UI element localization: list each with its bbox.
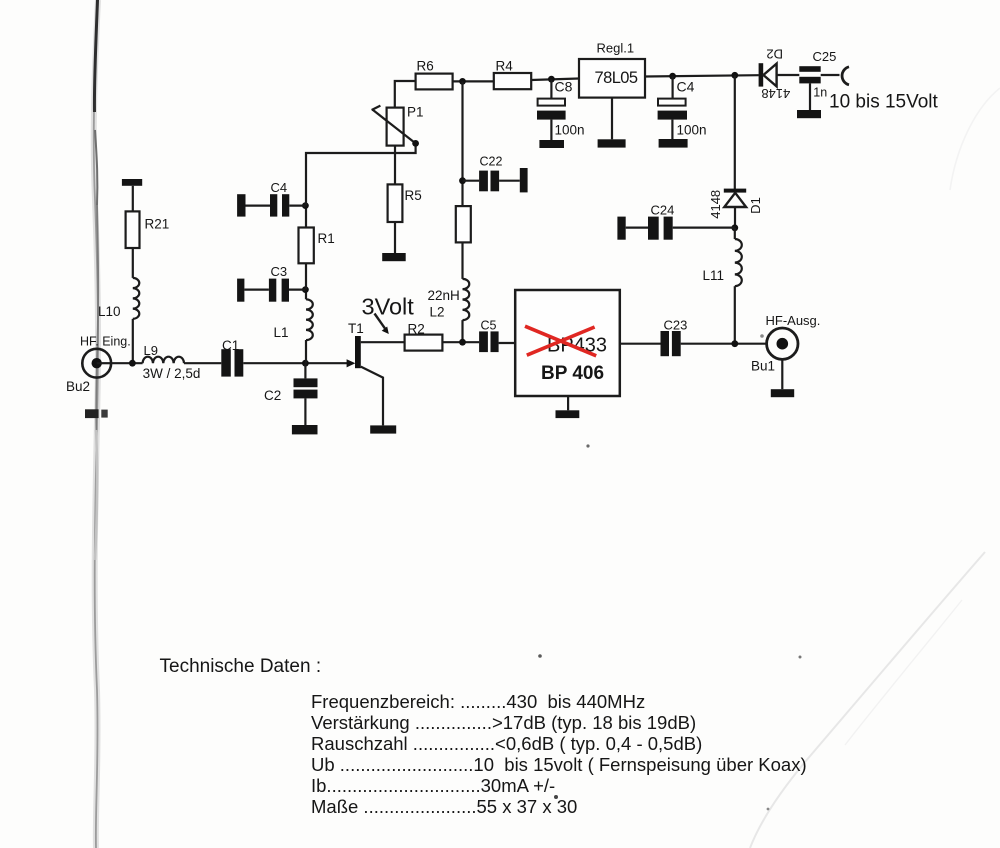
diode D2 bbox=[759, 47, 791, 101]
inductor L10 bbox=[98, 278, 139, 319]
ground (top of R21) bbox=[122, 179, 142, 211]
capacitor C4 bbox=[237, 180, 305, 217]
svg-text:Verstärkung ...............>17: Verstärkung ...............>17dB (typ. 1… bbox=[311, 712, 696, 733]
svg-text:BP 406: BP 406 bbox=[541, 363, 604, 384]
svg-text:Maße ......................55: Maße ......................55 x 37 x 30 bbox=[311, 796, 577, 817]
svg-text:R4: R4 bbox=[496, 59, 514, 74]
node (C3 junction) bbox=[302, 286, 309, 293]
ground (C4 100n) bbox=[659, 139, 688, 148]
diode D1 bbox=[708, 189, 763, 228]
svg-text:R2: R2 bbox=[408, 322, 425, 337]
svg-text:Regl.1: Regl.1 bbox=[597, 41, 635, 56]
node (C4 100n junction) bbox=[669, 73, 676, 80]
svg-text:D1: D1 bbox=[748, 197, 763, 214]
svg-text:Bu2: Bu2 bbox=[66, 379, 90, 394]
node (D1 branch) bbox=[731, 72, 738, 79]
wire C23 to output node bbox=[681, 343, 767, 345]
capacitor C2 bbox=[264, 363, 318, 425]
capacitor C22 bbox=[463, 155, 528, 193]
ground (T1) bbox=[370, 425, 396, 433]
svg-text:C4: C4 bbox=[677, 79, 695, 95]
wire R5 to ground bbox=[394, 222, 396, 253]
resistor R1 bbox=[299, 206, 335, 290]
capacitor C1 bbox=[221, 338, 243, 377]
node (R6/R4 junction) bbox=[459, 78, 466, 85]
wire module output to C23 bbox=[620, 343, 661, 345]
inductor L9 bbox=[143, 343, 201, 381]
regulator Regl.1 78L05 bbox=[579, 41, 645, 98]
potentiometer P1 bbox=[372, 105, 424, 146]
wire rail down to C22 node and R below bbox=[461, 81, 463, 206]
wire R2 to C5 node bbox=[442, 341, 479, 343]
svg-text:P1: P1 bbox=[407, 105, 424, 120]
connector Bu2 (HF input socket) bbox=[66, 335, 131, 395]
svg-text:Technische Daten :: Technische Daten : bbox=[160, 656, 322, 677]
wire C1 to T1 bbox=[243, 362, 347, 364]
wire Bu2 to L9 bbox=[111, 362, 143, 364]
wire T1 collector to R2 bbox=[361, 341, 405, 343]
wire L9 to C1 bbox=[184, 362, 221, 364]
svg-text:22nH: 22nH bbox=[428, 288, 460, 303]
svg-text:C4: C4 bbox=[271, 180, 288, 195]
svg-text:4148: 4148 bbox=[761, 86, 790, 101]
svg-text:Ub ..........................1: Ub ..........................10 bis 15vo… bbox=[311, 754, 807, 775]
svg-text:L1: L1 bbox=[274, 325, 289, 340]
node (C4 junction) bbox=[302, 202, 309, 209]
ground (C8) bbox=[539, 140, 564, 148]
wire R21 to L10 bbox=[132, 248, 134, 278]
svg-text:Ib............................: Ib..............................30mA +/- bbox=[311, 775, 555, 796]
svg-text:C2: C2 bbox=[264, 388, 281, 403]
wire C25 to coax connector bbox=[821, 74, 840, 76]
node (base junction) bbox=[302, 360, 309, 367]
wire T1 emitter to ground bbox=[361, 367, 383, 426]
svg-text:C22: C22 bbox=[480, 155, 503, 169]
resistor R6 bbox=[416, 59, 453, 90]
svg-text:L10: L10 bbox=[98, 304, 121, 319]
connector Bu1 (HF output socket) bbox=[751, 313, 820, 374]
svg-text:R1: R1 bbox=[318, 231, 335, 246]
inductor L2 22nH bbox=[428, 279, 470, 342]
svg-text:C25: C25 bbox=[813, 49, 837, 64]
svg-text:C24: C24 bbox=[651, 203, 675, 218]
node (output junction) bbox=[731, 340, 738, 347]
svg-text:HF. Eing.: HF. Eing. bbox=[80, 335, 131, 349]
ground (C2) bbox=[292, 425, 318, 434]
svg-text:78L05: 78L05 bbox=[595, 69, 638, 87]
wire D2 to C25 bbox=[777, 74, 800, 76]
ground (C25) bbox=[797, 110, 821, 118]
ground (Bu1) bbox=[771, 359, 794, 397]
svg-text:L9: L9 bbox=[144, 343, 158, 358]
svg-text:HF-Ausg.: HF-Ausg. bbox=[766, 313, 821, 328]
wire regulator output rail bbox=[645, 75, 759, 76]
svg-text:3W / 2,5d: 3W / 2,5d bbox=[143, 366, 201, 381]
svg-text:1n: 1n bbox=[813, 86, 827, 100]
svg-text:Frequenzbereich: .........430: Frequenzbereich: .........430 bis 440MHz bbox=[311, 691, 645, 712]
svg-text:C23: C23 bbox=[664, 318, 688, 333]
svg-text:T1: T1 bbox=[348, 321, 364, 336]
wire L10 to input node bbox=[132, 319, 134, 363]
svg-text:D2: D2 bbox=[766, 47, 783, 62]
svg-text:R6: R6 bbox=[417, 59, 434, 74]
resistor (unlabeled, collector feed) bbox=[456, 206, 471, 242]
amplifier module BP433 / BP406 bbox=[515, 290, 620, 396]
capacitor C8 bbox=[537, 79, 585, 141]
svg-text:R21: R21 bbox=[145, 217, 170, 232]
transistor T1 bbox=[347, 321, 364, 368]
node (input junction) bbox=[129, 360, 136, 367]
node (D1/C24/L11 junction) bbox=[731, 224, 738, 231]
resistor R2 bbox=[405, 322, 443, 351]
svg-text:L2: L2 bbox=[430, 305, 445, 320]
wire resistor to L2 bbox=[461, 242, 463, 279]
node (C22 junction) bbox=[459, 177, 466, 184]
resistor R21 bbox=[126, 211, 170, 248]
svg-text:4148: 4148 bbox=[708, 190, 723, 219]
svg-text:R5: R5 bbox=[405, 188, 422, 203]
svg-text:L11: L11 bbox=[703, 268, 725, 283]
ground (module) bbox=[556, 396, 580, 418]
svg-text:Rauschzahl ................<0,: Rauschzahl ................<0,6dB ( typ.… bbox=[311, 733, 702, 754]
svg-text:C5: C5 bbox=[481, 319, 497, 333]
svg-text:C8: C8 bbox=[555, 79, 573, 95]
resistor R5 bbox=[388, 184, 422, 222]
wire C4 node up and over to P1 wiper bbox=[306, 143, 416, 205]
capacitor C4 (100n) bbox=[658, 76, 707, 139]
capacitor C24 bbox=[617, 203, 734, 240]
svg-text:100n: 100n bbox=[677, 123, 707, 138]
inductor L1 bbox=[274, 299, 313, 363]
svg-text:C1: C1 bbox=[222, 338, 239, 353]
node (C8 junction) bbox=[548, 76, 555, 83]
wire C3 node to L1 bbox=[305, 290, 307, 300]
inductor L11 bbox=[703, 228, 742, 344]
ground (Bu2) bbox=[85, 409, 108, 418]
svg-text:3Volt: 3Volt bbox=[362, 294, 415, 320]
svg-text:C3: C3 bbox=[271, 264, 288, 279]
ground (R5) bbox=[382, 253, 406, 261]
wire rail down to D1 bbox=[734, 75, 736, 189]
wire rail to R6 and down to P1 bbox=[395, 81, 416, 108]
capacitor C5 bbox=[479, 319, 515, 353]
svg-text:100n: 100n bbox=[555, 123, 585, 138]
svg-text:10 bis 15Volt: 10 bis 15Volt bbox=[829, 92, 939, 113]
svg-text:Bu1: Bu1 bbox=[751, 359, 775, 374]
wire R4 to regulator bbox=[531, 79, 579, 81]
wire R6 to R4 bbox=[453, 80, 494, 82]
ground (78L05) bbox=[598, 98, 626, 148]
label 3Volt with arrow bbox=[362, 294, 415, 335]
capacitor C3 bbox=[237, 264, 305, 302]
resistor R4 bbox=[494, 59, 531, 90]
capacitor C25 (feedthrough 1n) bbox=[799, 49, 836, 110]
connector (coax supply entry) bbox=[842, 67, 849, 85]
capacitor C23 bbox=[661, 318, 688, 357]
node (P1 wiper) bbox=[412, 140, 419, 147]
node (R2/L2/C5 junction) bbox=[459, 339, 466, 346]
wire P1 to R5 bbox=[394, 146, 396, 185]
